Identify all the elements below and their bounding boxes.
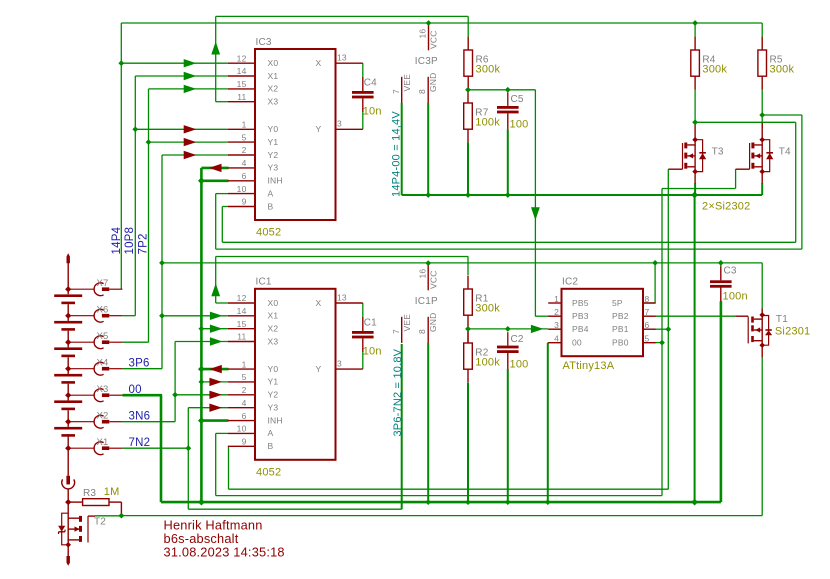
wire 5P to IC2 pin8 — [654, 263, 656, 303]
svg-text:14P4-00 = 14,4V: 14P4-00 = 14,4V — [390, 111, 402, 197]
wire T3 gate lead — [668, 168, 682, 170]
node R3-battery — [65, 499, 71, 505]
wire IC1 Y3 — [188, 407, 228, 409]
node — [425, 260, 431, 266]
node — [465, 499, 471, 505]
svg-text:3: 3 — [554, 320, 559, 330]
stub R1-R2 join — [467, 329, 469, 343]
svg-text:Y: Y — [316, 364, 322, 374]
node — [132, 126, 138, 132]
svg-text:1: 1 — [554, 294, 559, 304]
svg-text:15: 15 — [237, 319, 247, 329]
svg-text:VEE: VEE — [402, 74, 412, 92]
node — [505, 499, 511, 505]
svg-text:12: 12 — [237, 53, 247, 63]
resistor R7 100k — [467, 90, 469, 103]
node thick — [198, 417, 205, 424]
node thick — [198, 177, 205, 184]
node — [465, 192, 471, 198]
wire IC1 A loop bottom — [216, 495, 662, 497]
svg-text:PB2: PB2 — [612, 311, 629, 321]
arrow down PB3 — [531, 207, 540, 220]
wire GND IC3P down — [427, 103, 429, 195]
svg-text:4: 4 — [554, 334, 559, 344]
svg-text:X0: X0 — [268, 58, 279, 68]
arrow IC3 Y3 left — [209, 164, 222, 172]
svg-text:C2: C2 — [511, 334, 524, 345]
svg-text:1M: 1M — [104, 486, 120, 498]
resistor R6 300k — [467, 37, 469, 50]
arrow IC1 Y0 left — [209, 365, 222, 373]
connector X6 — [68, 315, 94, 317]
wire right loop vertical to R5-T4 — [801, 115, 803, 249]
node — [505, 326, 511, 332]
svg-text:X2: X2 — [268, 84, 279, 94]
svg-text:100: 100 — [510, 358, 529, 370]
wire gnd rail upper — [402, 194, 763, 196]
wire R4-T3 drain rail — [695, 121, 796, 123]
capacitor C1 plates — [352, 331, 374, 334]
wire R5-T4 rail — [762, 114, 802, 116]
svg-text:X1: X1 — [268, 311, 279, 321]
wire 00 thick vertical — [200, 168, 203, 502]
arrow up IC3 — [211, 42, 220, 55]
svg-text:14: 14 — [237, 66, 247, 76]
wire T2 gate lead — [88, 515, 95, 517]
wire R1 top rail — [216, 256, 469, 258]
svg-text:8: 8 — [645, 294, 650, 304]
arrow green — [184, 72, 197, 80]
battery cell 6 short plate — [61, 434, 75, 437]
wire VEE IC1P down — [401, 344, 403, 509]
resistor R1 300k — [467, 276, 469, 289]
wire R4 bottom — [694, 89, 696, 124]
wire PB0 vertical — [661, 189, 663, 496]
wire C4 top link — [362, 63, 364, 77]
svg-text:4: 4 — [242, 158, 247, 168]
svg-text:T2: T2 — [94, 517, 106, 528]
svg-text:X3: X3 — [268, 97, 279, 107]
svg-text:Y1: Y1 — [268, 377, 279, 387]
svg-text:IC1: IC1 — [256, 277, 272, 288]
wire divider to IC2 pin3 — [468, 328, 548, 330]
arrow maroon — [184, 138, 197, 146]
arrow green — [184, 59, 197, 67]
svg-text:10: 10 — [237, 184, 247, 194]
svg-text:00: 00 — [129, 384, 142, 396]
wire C4 bottom link — [362, 112, 364, 129]
node — [759, 112, 765, 118]
op-amp IC2 ATtiny13A — [562, 289, 644, 356]
power symbol IC3P VCC VEE GND — [428, 25, 430, 51]
wire IC3 Y0 — [135, 128, 228, 130]
svg-text:10: 10 — [237, 424, 247, 434]
svg-text:R3: R3 — [83, 488, 96, 499]
wire VEE IC3P down — [401, 103, 403, 195]
wire IC3 X2 — [149, 88, 228, 90]
node — [199, 326, 205, 332]
wire IC3 Y2 — [162, 154, 228, 156]
svg-text:X: X — [316, 298, 322, 308]
node battery tap X2 — [65, 419, 71, 425]
svg-text:12: 12 — [237, 293, 247, 303]
svg-text:T3: T3 — [712, 146, 724, 157]
wire R3-T1 source line — [121, 515, 762, 517]
svg-text:INH: INH — [268, 415, 283, 425]
arrow into IC2 pin3 — [531, 325, 544, 333]
capacitor C2 plates — [497, 346, 519, 349]
op-amp IC3 4052 analog multiplexer — [255, 49, 336, 220]
node thick — [691, 192, 698, 199]
wire IC1 A loop vertical — [215, 433, 217, 495]
svg-text:B: B — [268, 441, 274, 451]
svg-text:PB0: PB0 — [612, 338, 629, 348]
node — [505, 192, 511, 198]
arrow green IC1 — [210, 312, 223, 320]
wire R7 bottom — [467, 142, 469, 195]
svg-text:Y0: Y0 — [268, 364, 279, 374]
svg-text:3N6: 3N6 — [129, 411, 151, 423]
wire R6 bottom node — [468, 89, 535, 91]
wire 7N2-VEE link — [188, 508, 401, 510]
wire X2 3N6 — [122, 421, 175, 423]
wire X3-R6 upper rail — [216, 15, 469, 17]
wire IC3 INH thick — [201, 180, 228, 183]
connector X3 — [68, 394, 94, 396]
wire IC3 X0 — [121, 62, 228, 64]
wire 3N6 vertical — [174, 342, 176, 422]
svg-text:A: A — [268, 428, 274, 438]
wire R6 top — [467, 16, 469, 37]
wire C5 bottom — [507, 129, 509, 195]
wire PB0 row — [655, 342, 662, 344]
wire IC3 B — [222, 206, 228, 208]
svg-text:VCC: VCC — [429, 30, 439, 49]
svg-text:5: 5 — [242, 372, 247, 382]
wire R5 bottom — [761, 89, 763, 115]
svg-text:PB5: PB5 — [572, 298, 589, 308]
battery cell 5 short plate — [61, 408, 75, 411]
node — [146, 139, 152, 145]
svg-text:4052: 4052 — [256, 227, 281, 239]
svg-text:1: 1 — [242, 359, 247, 369]
wire IC1 Y0 thick — [201, 368, 228, 371]
svg-text:GND: GND — [428, 313, 438, 333]
wire C1 top link — [362, 303, 364, 317]
wire 00 thick left vertical — [160, 395, 163, 502]
wire IC3 Y3 thick — [201, 167, 228, 170]
svg-text:X7: X7 — [97, 278, 109, 289]
arrow up IC1 — [211, 283, 220, 296]
svg-text:X3: X3 — [268, 336, 279, 346]
node — [425, 499, 431, 505]
wire IC3 A loop vertical — [215, 194, 217, 250]
arrow green — [184, 85, 197, 93]
svg-text:14P4: 14P4 — [111, 226, 123, 254]
svg-text:2×Si2302: 2×Si2302 — [702, 201, 750, 213]
svg-text:X0: X0 — [268, 298, 279, 308]
svg-text:16: 16 — [418, 269, 428, 279]
stub C2 bottom — [507, 353, 509, 369]
svg-text:PB3: PB3 — [572, 311, 589, 321]
wire 14P4 top rail — [121, 22, 762, 24]
node — [172, 392, 178, 398]
svg-text:Y2: Y2 — [268, 150, 279, 160]
wire VCC IC1P up — [427, 263, 429, 266]
svg-text:13: 13 — [337, 292, 347, 302]
svg-text:T1: T1 — [776, 314, 788, 325]
transistor T1 Si2301 p-mosfet — [751, 317, 754, 323]
wire R2 bottom — [467, 383, 469, 503]
svg-text:9: 9 — [242, 197, 247, 207]
svg-text:B: B — [268, 201, 274, 211]
node — [659, 340, 665, 346]
arrow maroon — [184, 151, 197, 159]
svg-text:Y3: Y3 — [268, 163, 279, 173]
svg-text:Y: Y — [316, 124, 322, 134]
node — [185, 445, 191, 451]
resistor R5 300k — [761, 37, 763, 50]
transistor T3 Si2302 n-mosfet — [684, 143, 687, 149]
wire R5 top — [761, 23, 763, 37]
svg-text:X1: X1 — [97, 437, 109, 448]
wire vertical to IC3 X3 — [215, 16, 217, 101]
svg-text:IC1P: IC1P — [415, 296, 438, 307]
svg-text:X2: X2 — [268, 324, 279, 334]
transistor T2 n-mosfet — [79, 516, 82, 522]
stub C5 bottom — [507, 114, 509, 130]
wire C2 bottom — [507, 369, 509, 502]
svg-text:300k: 300k — [702, 64, 727, 76]
node — [652, 260, 658, 266]
svg-text:8: 8 — [417, 89, 427, 94]
svg-text:100n: 100n — [723, 291, 748, 303]
power symbol IC1P VCC VEE GND — [427, 265, 429, 291]
wire — [161, 154, 163, 156]
wire right loop vertical to R4-T3 — [795, 122, 797, 242]
wire T4 gate link — [662, 188, 736, 190]
wire IC3 A — [216, 193, 228, 195]
svg-text:INH: INH — [268, 176, 283, 186]
wire IC1 B — [227, 445, 230, 447]
wire IC1 B loop bottom — [229, 488, 669, 490]
svg-text:X3: X3 — [97, 384, 109, 395]
svg-text:6: 6 — [242, 411, 247, 421]
svg-text:5P: 5P — [612, 298, 623, 308]
svg-text:300k: 300k — [770, 64, 795, 76]
node thick — [198, 499, 205, 506]
wire GND IC1P down — [427, 343, 429, 502]
svg-text:T4: T4 — [779, 146, 791, 157]
connector battery minus (vertical pinhead) — [66, 476, 70, 485]
svg-text:300k: 300k — [476, 64, 501, 76]
op-amp IC1 4052 analog multiplexer — [255, 289, 336, 460]
svg-text:X4: X4 — [97, 358, 109, 369]
node — [118, 60, 124, 66]
wire IC1 A — [216, 432, 228, 434]
svg-text:10P8: 10P8 — [124, 227, 136, 255]
svg-text:4052: 4052 — [256, 466, 281, 478]
svg-text:C4: C4 — [364, 78, 377, 89]
node — [159, 313, 165, 319]
wire R1 top — [467, 257, 469, 276]
node battery tap X5 — [65, 339, 71, 345]
node — [465, 326, 471, 332]
battery cell 6 long plate — [54, 427, 82, 430]
svg-text:100k: 100k — [475, 117, 500, 129]
svg-text:Y0: Y0 — [268, 124, 279, 134]
capacitor C3 100n — [720, 267, 722, 281]
node — [545, 499, 551, 505]
wire X4 3P6 — [122, 368, 162, 370]
arrow green IC1 — [210, 337, 223, 345]
arrow maroon IC1 — [209, 404, 222, 412]
node — [426, 20, 432, 26]
svg-text:3: 3 — [337, 359, 342, 369]
svg-text:11: 11 — [237, 332, 246, 342]
wire T2 source end blob — [67, 556, 70, 566]
wire X5 to 7P2 — [122, 341, 148, 343]
svg-text:X5: X5 — [97, 331, 109, 342]
node — [199, 379, 205, 385]
svg-text:A: A — [268, 188, 274, 198]
arrow maroon IC1 — [209, 378, 222, 386]
connector X5 — [68, 341, 94, 343]
wire IC3 X3 — [216, 101, 228, 103]
node — [159, 260, 165, 266]
capacitor C4 plates — [352, 91, 374, 94]
resistor R2 100k — [467, 330, 469, 343]
wire T4 gate lead — [736, 168, 750, 170]
svg-text:X2: X2 — [97, 411, 109, 422]
arrow green IC1 — [210, 325, 223, 333]
node — [665, 326, 671, 332]
node battery tap X6 — [65, 313, 71, 319]
wire IC1 INH thick — [201, 419, 228, 422]
battery cell 1 long plate — [54, 294, 82, 297]
wire 3P6 vertical — [161, 155, 163, 369]
battery cell 2 long plate — [54, 321, 82, 324]
wire IC3 X1 — [135, 75, 228, 77]
svg-text:15: 15 — [237, 79, 247, 89]
battery cell 4 long plate — [54, 374, 82, 377]
wire C3 top link — [720, 264, 722, 267]
node battery tap X1 — [65, 445, 71, 451]
wire T4 gate rise — [735, 169, 737, 188]
wire IC3 A loop rail — [216, 248, 802, 250]
svg-text:IC3: IC3 — [256, 37, 272, 48]
svg-text:C5: C5 — [511, 94, 524, 105]
transistor T4 Si2302 n-mosfet — [751, 143, 754, 149]
svg-text:Si2301: Si2301 — [775, 326, 810, 338]
capacitor C3 plates — [710, 280, 732, 283]
wire 3P6-5P rail — [162, 262, 762, 264]
arrow maroon IC1 — [209, 391, 222, 399]
node — [425, 192, 431, 198]
wire IC1 Y1 — [201, 381, 228, 383]
connector X4 — [68, 368, 94, 370]
svg-text:IC3P: IC3P — [415, 56, 438, 67]
svg-text:C1: C1 — [364, 318, 377, 329]
node thick — [198, 366, 205, 373]
svg-text:16: 16 — [418, 29, 428, 39]
wire IC1 B loop vertical — [228, 446, 230, 489]
wire IC2 pin8 row — [643, 302, 656, 304]
node battery tap X7 — [65, 286, 71, 292]
svg-text:11: 11 — [237, 92, 246, 102]
svg-text:10n: 10n — [363, 106, 382, 118]
connector X7 — [68, 288, 94, 290]
wire IC1 X3 — [175, 341, 228, 343]
svg-text:100k: 100k — [475, 357, 500, 369]
svg-text:10n: 10n — [363, 346, 382, 358]
svg-text:X6: X6 — [97, 305, 109, 316]
svg-text:1: 1 — [242, 120, 247, 130]
connector X2 — [68, 421, 94, 423]
svg-text:7: 7 — [391, 89, 401, 94]
capacitor C4 10n — [362, 77, 364, 91]
node battery tap X4 — [65, 366, 71, 372]
wire IC3 B loop vertical — [221, 207, 223, 243]
wire PB3 vertical — [534, 90, 536, 316]
resistor R3 1M — [68, 501, 82, 503]
capacitor C1 10n — [362, 317, 364, 331]
wire T1 drain drop — [761, 263, 763, 309]
wire IC1 Y2 — [175, 394, 228, 396]
svg-text:9: 9 — [242, 437, 247, 447]
svg-text:3P6: 3P6 — [129, 358, 150, 370]
svg-text:2: 2 — [554, 307, 559, 317]
wire 10P8 vertical — [134, 76, 136, 316]
wire R1rail to IC1 X0 vertical — [215, 257, 217, 304]
wire thick vert T3T4 source to 00 rail — [694, 195, 696, 502]
node — [692, 119, 698, 125]
battery cell 3 long plate — [54, 347, 82, 350]
svg-text:6: 6 — [242, 171, 247, 181]
svg-text:PB1: PB1 — [612, 324, 629, 334]
wire IC2 pin2 — [535, 315, 549, 317]
svg-text:3: 3 — [337, 119, 342, 129]
wire 7P2 vertical — [148, 89, 150, 342]
wire IC1 X2 — [201, 328, 228, 330]
svg-text:3P6-7N2 = 10,8V: 3P6-7N2 = 10,8V — [392, 348, 404, 436]
wire IC1 X0 — [216, 302, 228, 304]
svg-text:IC2: IC2 — [562, 277, 578, 288]
wire T1 source down — [761, 357, 763, 516]
svg-text:300k: 300k — [475, 303, 500, 315]
wire T3 source down — [694, 183, 696, 195]
node — [505, 87, 511, 93]
svg-text:Y1: Y1 — [268, 137, 279, 147]
battery cell 3 short plate — [61, 355, 75, 358]
svg-text:C3: C3 — [724, 266, 737, 277]
svg-text:14: 14 — [237, 306, 247, 316]
wire R4 top — [694, 23, 696, 37]
svg-text:PB4: PB4 — [572, 324, 589, 334]
battery stack 6 cells — [67, 253, 70, 263]
resistor R4 300k — [694, 37, 696, 50]
svg-text:VCC: VCC — [429, 270, 439, 289]
svg-text:2: 2 — [242, 145, 247, 155]
svg-text:Y3: Y3 — [268, 403, 279, 413]
arrow maroon — [184, 125, 197, 133]
svg-text:ATtiny13A: ATtiny13A — [563, 360, 615, 372]
wire PB2 to T1 gate — [655, 315, 736, 317]
stub C5 top — [507, 93, 509, 106]
node battery tap X3 — [65, 392, 71, 398]
svg-text:6: 6 — [645, 320, 650, 330]
wire X6 to 10P8 — [122, 315, 135, 317]
